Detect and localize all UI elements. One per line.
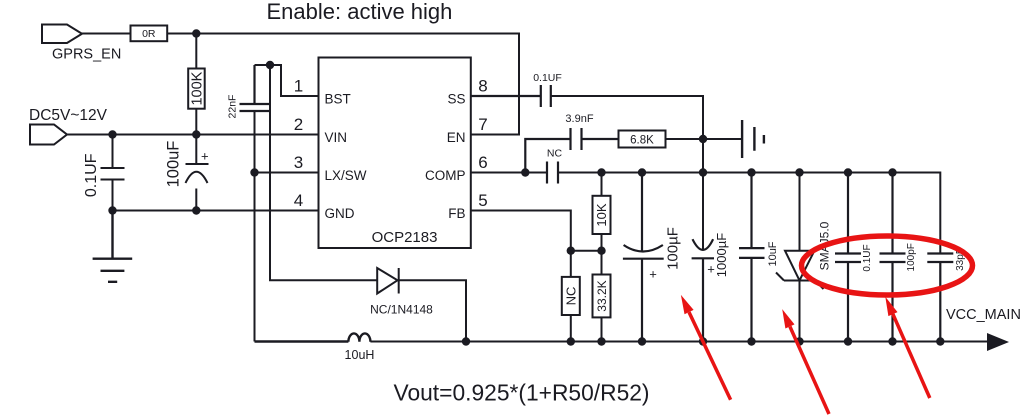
wire top ground rail: [558, 173, 940, 254]
capacitor C 33pF: [927, 254, 953, 342]
junction FB node right: [597, 247, 605, 255]
svg-text:0.1UF: 0.1UF: [533, 72, 562, 84]
wire COMP pin to NC cap: [471, 172, 547, 174]
wire FB pin to divider node: [471, 211, 602, 251]
wire 100K to VIN rail: [195, 109, 197, 135]
TVS diode D SMAJ5.0: [799, 173, 801, 342]
op-amp U1 OCP2183 body: [319, 58, 471, 249]
wire GPRS_EN to R 0R: [82, 33, 131, 35]
svg-text:0.1UF: 0.1UF: [862, 244, 873, 271]
svg-text:NC: NC: [564, 287, 579, 306]
diode D NC/1N4148: [377, 268, 397, 294]
wire VIN rail: [67, 134, 319, 136]
junction top rail x799.5: [795, 168, 803, 176]
resistor R 6.8K: [619, 131, 666, 148]
capacitor C 10uF: [739, 173, 765, 342]
capacitor C 22nF: [240, 65, 270, 111]
svg-text:3: 3: [294, 153, 303, 172]
svg-text:Enable: active high: Enable: active high: [267, 0, 453, 24]
svg-text:1: 1: [294, 77, 303, 96]
resistor 0R: [131, 26, 168, 42]
junction top rail x703: [699, 168, 707, 176]
svg-text:6.8K: 6.8K: [630, 134, 654, 146]
junction bottom rail x751.5: [747, 337, 755, 345]
junction diode output to rail: [462, 337, 470, 345]
capacitor C 1000uF output (polarized): [692, 239, 714, 341]
svg-text:22nF: 22nF: [226, 95, 238, 119]
svg-text:0.1UF: 0.1UF: [83, 153, 100, 197]
capacitor C NC (comp): [547, 162, 558, 184]
svg-text:100pF: 100pF: [906, 243, 917, 271]
annotation red arrow 2: [790, 327, 829, 415]
svg-text:LX/SW: LX/SW: [325, 168, 367, 183]
svg-text:6: 6: [478, 153, 487, 172]
svg-text:100uF: 100uF: [164, 141, 182, 188]
net connector DC5V~12V: [30, 125, 67, 145]
svg-text:4: 4: [294, 191, 303, 210]
junction bottom rail x703: [699, 337, 707, 345]
junction bottom rail x892.5: [888, 337, 896, 345]
svg-text:3.9nF: 3.9nF: [565, 113, 593, 125]
ground sideways: [742, 120, 764, 158]
wire enable node down to R 100K: [195, 34, 197, 69]
inductor L 10uH: [255, 333, 371, 341]
svg-text:+: +: [707, 262, 715, 277]
svg-text:GPRS_EN: GPRS_EN: [52, 47, 121, 63]
svg-text:2: 2: [294, 115, 303, 134]
capacitor C 100uF input (polarized): [186, 135, 209, 211]
junction top rail x848: [844, 168, 852, 176]
wire 22nF top to BST pin: [255, 65, 319, 96]
svg-text:1000µF: 1000µF: [714, 233, 729, 277]
junction top rail x892.5: [888, 168, 896, 176]
junction top rail x642: [638, 168, 646, 176]
svg-text:VIN: VIN: [325, 130, 348, 145]
junction comp network at ground column: [699, 135, 707, 143]
svg-text:DC5V~12V: DC5V~12V: [29, 107, 108, 124]
net arrow VCC_MAIN: [987, 333, 1009, 351]
junction bottom rail x940.3: [936, 337, 944, 345]
capacitor C 100pF: [880, 173, 906, 342]
svg-text:EN: EN: [447, 130, 466, 145]
wire LX/SW pin stub: [255, 172, 319, 174]
svg-text:10uF: 10uF: [767, 241, 779, 266]
svg-text:+: +: [649, 267, 657, 282]
wire 0R to enable node: [167, 33, 196, 35]
resistor R 33.2K: [601, 251, 603, 342]
svg-text:VCC_MAIN: VCC_MAIN: [946, 307, 1021, 323]
junction BST boot node: [266, 61, 274, 69]
svg-text:7: 7: [478, 115, 487, 134]
resistor R 10K: [601, 173, 603, 251]
svg-text:BST: BST: [325, 92, 351, 107]
svg-text:GND: GND: [325, 206, 355, 221]
wire 6.8K to ground: [666, 138, 743, 140]
junction enable node: [192, 29, 200, 37]
junction FB node left: [567, 247, 575, 255]
wire boot node down to diode row: [270, 65, 377, 280]
junction VIN at C 100uF: [192, 130, 200, 138]
junction GND at C 100uF: [192, 206, 200, 214]
svg-text:8: 8: [478, 77, 487, 96]
junction bottom rail x642: [638, 337, 646, 345]
capacitor C 100uF output (polarized): [623, 173, 664, 342]
resistor R NC: [570, 251, 572, 342]
junction bottom rail x848: [844, 337, 852, 345]
svg-text:SS: SS: [447, 92, 465, 107]
wire 22nF bottom down to LX node and bottom rail: [254, 111, 256, 342]
junction top rail x751.5: [747, 168, 755, 176]
ground input: [93, 211, 133, 282]
junction bottom rail x601.5: [597, 337, 605, 345]
wire VCC bottom rail: [370, 341, 987, 343]
junction COMP at 3.9nF branch: [521, 168, 529, 176]
junction LX node: [250, 168, 258, 176]
svg-text:100K: 100K: [189, 71, 205, 105]
svg-text:33.2K: 33.2K: [595, 280, 609, 311]
svg-text:FB: FB: [448, 206, 465, 221]
svg-text:NC: NC: [547, 148, 563, 160]
resistor R 100K: [188, 69, 205, 109]
svg-text:10K: 10K: [594, 203, 609, 226]
svg-text:Vout=0.925*(1+R50/R52): Vout=0.925*(1+R50/R52): [394, 380, 650, 406]
annotation red arrow 1: [689, 312, 731, 400]
svg-text:100µF: 100µF: [665, 227, 682, 270]
svg-text:+: +: [201, 149, 209, 164]
svg-text:0R: 0R: [142, 28, 156, 40]
capacitor C 0.1UF input: [101, 135, 125, 211]
wire SS cap to ground column: [551, 96, 703, 250]
svg-text:5: 5: [478, 191, 487, 210]
wire GND rail: [113, 210, 319, 212]
svg-text:NC/1N4148: NC/1N4148: [370, 303, 433, 317]
svg-text:OCP2183: OCP2183: [372, 229, 438, 246]
annotation red ellipse: [802, 236, 973, 295]
capacitor C 0.1UF soft-start: [471, 85, 551, 107]
net connector GPRS_EN: [42, 25, 82, 44]
junction VIN at C 0.1UF: [108, 130, 116, 138]
annotation red arrow 3: [893, 314, 930, 398]
junction bottom rail x799.5: [795, 337, 803, 345]
svg-text:COMP: COMP: [425, 168, 466, 183]
wire enable net to EN pin (top run + drop): [196, 34, 519, 135]
junction bottom rail x570.8: [567, 337, 575, 345]
capacitor C 0.1UF output: [835, 173, 861, 342]
junction GND at C 0.1UF: [108, 206, 116, 214]
svg-text:10uH: 10uH: [345, 348, 375, 362]
capacitor C 3.9nF: [525, 128, 618, 173]
junction top rail x601.5: [597, 168, 605, 176]
